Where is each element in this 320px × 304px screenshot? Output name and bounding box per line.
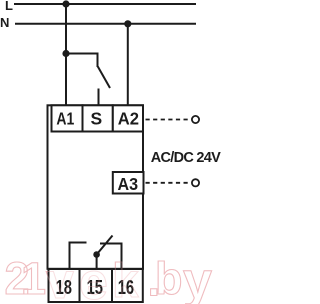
wire N to A2 bbox=[127, 24, 129, 105]
terminal A3 bbox=[113, 172, 144, 194]
relay contact blade K1 bbox=[97, 236, 113, 255]
wire to terminal S bbox=[98, 89, 100, 106]
svg-text:N: N bbox=[0, 15, 9, 30]
switch S blade bbox=[98, 67, 110, 89]
wire contact 15 common bbox=[96, 255, 98, 270]
wire contact 18 fixed bbox=[70, 243, 87, 270]
terminal 15 bbox=[80, 269, 113, 302]
node A3 open terminal bbox=[192, 179, 199, 186]
wire A3 dashed lead bbox=[146, 182, 190, 184]
svg-text:L: L bbox=[5, 0, 13, 13]
junction L to A1 wire bbox=[62, 0, 69, 7]
node A2 open terminal bbox=[192, 116, 199, 123]
wire N line bbox=[15, 23, 196, 25]
junction relay contact pivot bbox=[93, 251, 100, 258]
wire contact 16 fixed bbox=[100, 244, 122, 270]
wire L line bbox=[14, 3, 196, 5]
terminal 18 bbox=[49, 269, 80, 302]
wire L to A1 bbox=[65, 4, 67, 105]
wire switch feed bbox=[66, 54, 98, 68]
terminal A2 bbox=[113, 105, 143, 131]
junction N to A2 wire bbox=[124, 20, 131, 27]
svg-text:AC/DC 24V: AC/DC 24V bbox=[151, 150, 221, 166]
svg-text:S: S bbox=[91, 108, 103, 128]
relay module body U1 bbox=[48, 105, 144, 268]
junction switch tap bbox=[62, 50, 69, 57]
terminal S bbox=[83, 105, 113, 131]
terminal A1 bbox=[52, 105, 83, 131]
terminal 16 bbox=[112, 269, 143, 302]
svg-text:A1: A1 bbox=[56, 110, 74, 129]
svg-text:A2: A2 bbox=[118, 109, 139, 128]
svg-text:A3: A3 bbox=[118, 175, 139, 195]
wire A2 dashed lead bbox=[146, 119, 190, 121]
